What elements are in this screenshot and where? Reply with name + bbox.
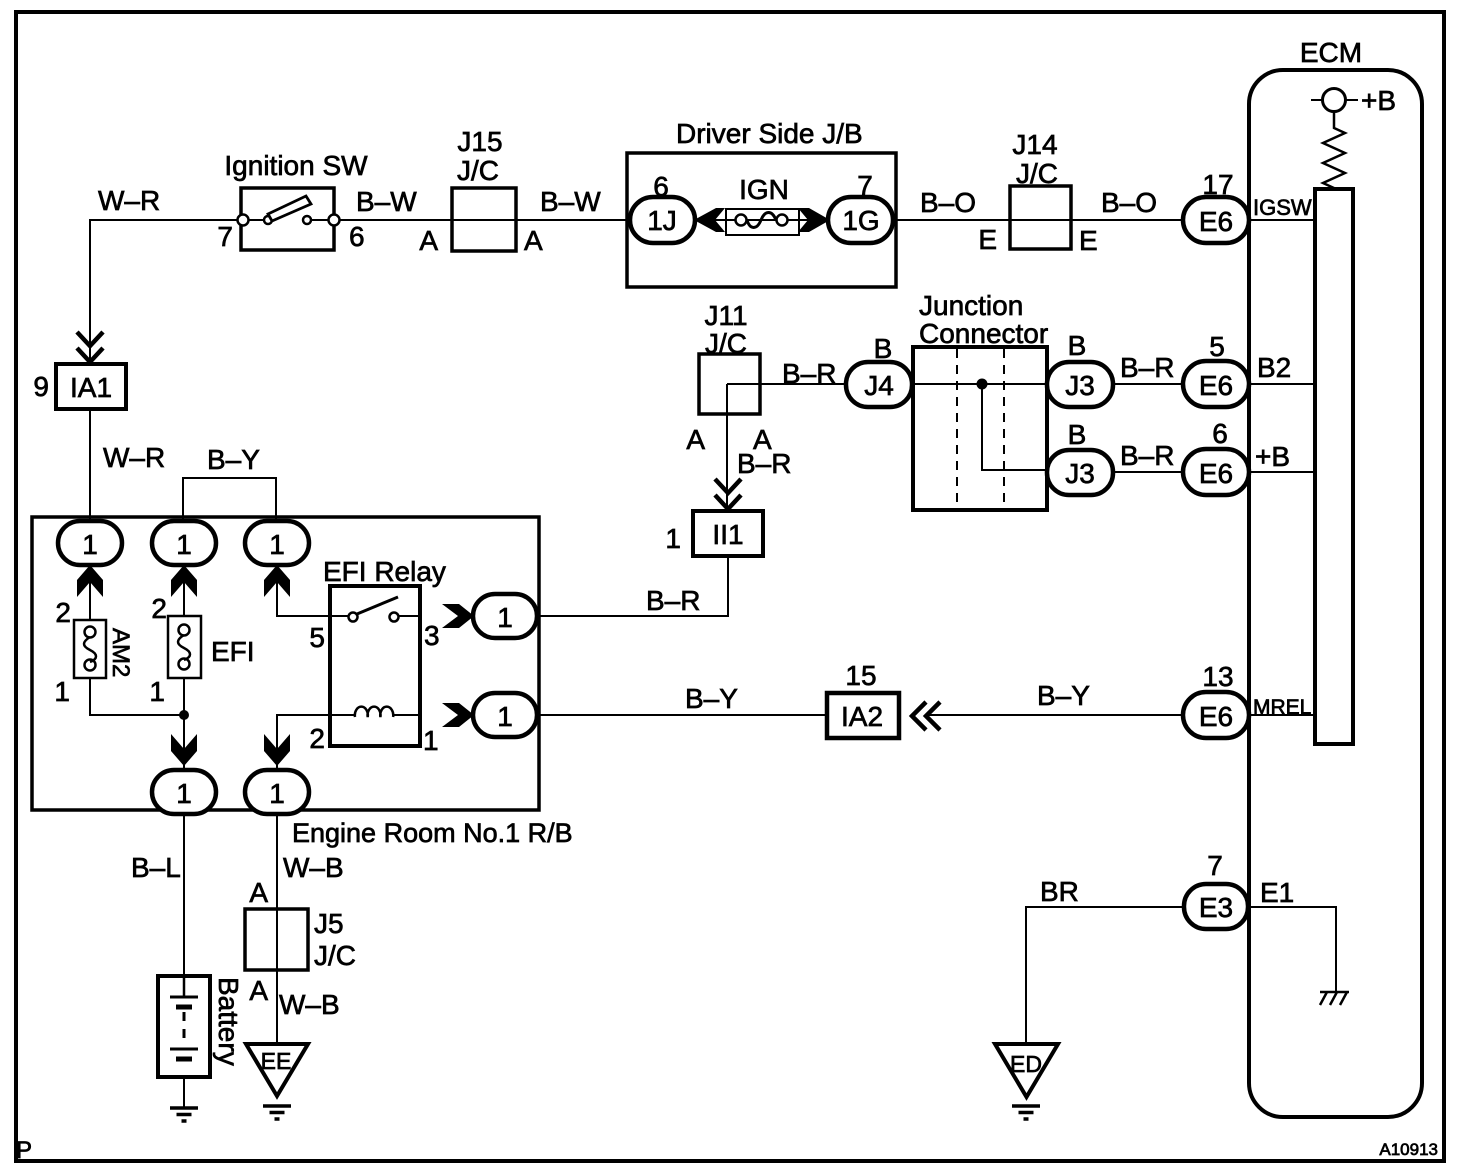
svg-text:BR: BR <box>1040 876 1079 907</box>
svg-text:1: 1 <box>269 529 285 560</box>
svg-text:15: 15 <box>845 660 876 691</box>
svg-text:7: 7 <box>857 170 873 201</box>
svg-text:1: 1 <box>54 676 70 707</box>
svg-text:1: 1 <box>497 602 513 633</box>
svg-text:Driver Side J/B: Driver Side J/B <box>676 118 863 149</box>
wire inside junction connector <box>982 384 1047 470</box>
svg-text:B–Y: B–Y <box>685 683 738 714</box>
svg-text:E: E <box>978 224 997 255</box>
wire EFI fuse column <box>183 560 185 616</box>
svg-text:J11: J11 <box>704 300 747 331</box>
svg-text:IGSW: IGSW <box>1253 195 1312 220</box>
svg-text:B–R: B–R <box>646 585 700 616</box>
svg-text:P: P <box>16 1137 32 1164</box>
svg-text:B–O: B–O <box>1101 187 1157 218</box>
svg-text:B: B <box>1068 330 1087 361</box>
connector E3 pin 7 (E1) <box>1184 850 1248 929</box>
svg-text:3: 3 <box>424 620 440 651</box>
svg-text:IA1: IA1 <box>70 372 112 403</box>
arrow down (W-B column) <box>264 734 290 766</box>
fuse EFI pins 2/1 <box>149 593 254 707</box>
wire +B E6 to ECM block <box>1247 471 1316 473</box>
ground (battery) <box>170 1108 198 1121</box>
connector 1J pin 6 <box>630 171 695 243</box>
svg-text:1G: 1G <box>842 205 879 236</box>
wire W-R from ignition SW to IA1 <box>90 220 243 364</box>
wire E1 to chassis ground <box>1247 907 1336 992</box>
svg-text:6: 6 <box>349 221 365 252</box>
svg-text:W–R: W–R <box>103 442 165 473</box>
svg-text:B–W: B–W <box>540 186 601 217</box>
connector 1 (relay pin 1) <box>473 693 537 737</box>
svg-text:IA2: IA2 <box>841 701 883 732</box>
connector 1 (bottom, W-B) <box>245 770 309 814</box>
arrow into II1 (double chevron) <box>715 479 741 509</box>
svg-text:J3: J3 <box>1065 458 1095 489</box>
svg-text:2: 2 <box>309 723 325 754</box>
wire relay pin2 to W-B column <box>277 715 332 772</box>
wire relay pin5 input <box>277 560 332 616</box>
svg-text:EFI: EFI <box>211 636 255 667</box>
svg-text:B2: B2 <box>1257 352 1291 383</box>
ECM internal block <box>1315 189 1353 744</box>
svg-text:J4: J4 <box>864 370 894 401</box>
arrow into 1J <box>694 208 725 232</box>
svg-text:B–R: B–R <box>737 448 791 479</box>
svg-text:B–R: B–R <box>782 358 836 389</box>
svg-text:Engine Room No.1 R/B: Engine Room No.1 R/B <box>292 818 573 848</box>
svg-text:B: B <box>874 333 893 364</box>
connector J4 pin B <box>846 333 912 407</box>
svg-text:W–B: W–B <box>283 852 344 883</box>
svg-text:W–B: W–B <box>279 989 340 1020</box>
connector E6 pin 13 (MREL) <box>1183 661 1249 738</box>
svg-text:E6: E6 <box>1199 458 1233 489</box>
svg-text:B: B <box>1068 419 1087 450</box>
svg-text:1: 1 <box>497 701 513 732</box>
Engine Room No.1 R/B box <box>32 517 573 848</box>
junction J11 J/C <box>686 300 772 455</box>
svg-text:J5: J5 <box>314 908 344 939</box>
connector 1G pin 7 <box>828 170 893 243</box>
svg-text:1J: 1J <box>647 205 677 236</box>
svg-text:B–Y: B–Y <box>1037 680 1090 711</box>
ground ED triangle <box>995 1044 1058 1097</box>
block IA1 pin 9 <box>33 364 126 409</box>
junction J14 J/C <box>978 129 1097 256</box>
ECM +B terminal <box>1311 85 1396 116</box>
wire AM2 fuse to junction dot <box>90 676 184 715</box>
svg-text:ECM: ECM <box>1300 37 1362 68</box>
svg-text:5: 5 <box>1209 331 1225 362</box>
junction J15 J/C <box>419 126 543 256</box>
connector E6 pin 6 (+B) <box>1183 418 1249 495</box>
fuse AM2 pins 2/1 <box>54 597 134 707</box>
wire B-Y loop over fuses <box>183 478 276 526</box>
svg-text:II1: II1 <box>712 519 743 550</box>
arrow right (relay pin 1 output) <box>442 703 474 727</box>
arrow right (relay pin 3 output) <box>442 604 474 628</box>
svg-text:Ignition SW: Ignition SW <box>224 150 368 181</box>
svg-text:B–R: B–R <box>1120 440 1174 471</box>
svg-text:J14: J14 <box>1012 129 1057 160</box>
wire battery to ground <box>183 1058 185 1108</box>
arrow into 1G <box>798 208 830 232</box>
wire B-W ignition SW to 1J <box>334 219 632 221</box>
svg-text:+B: +B <box>1255 441 1290 472</box>
wire B-R J11 down to II1 <box>726 384 728 513</box>
svg-text:B–W: B–W <box>356 186 417 217</box>
connector 1 (top of AM2 fuse) <box>58 521 122 565</box>
fuse IGN <box>711 174 813 235</box>
svg-text:EE: EE <box>261 1048 292 1074</box>
ground EE triangle <box>246 1044 308 1096</box>
svg-text:EFI Relay: EFI Relay <box>323 556 446 587</box>
svg-text:2: 2 <box>55 597 71 628</box>
junction connector box (J3/J4) <box>913 290 1048 510</box>
arrow up (AM2 column) <box>77 565 103 597</box>
arrow into IA1 (double chevron) <box>77 332 103 362</box>
svg-text:A10913: A10913 <box>1379 1140 1438 1159</box>
wire B-R J3 to E6 (B2 row) <box>1110 383 1185 385</box>
wire MREL E6 to ECM block <box>1247 714 1316 716</box>
svg-text:Junction: Junction <box>919 290 1023 321</box>
svg-text:Battery: Battery <box>213 977 244 1066</box>
wire BR E3 to ED ground <box>1026 907 1185 1046</box>
svg-text:ED: ED <box>1010 1051 1042 1077</box>
battery <box>158 976 244 1077</box>
svg-text:+B: +B <box>1361 85 1396 116</box>
connector E6 pin 5 (B2) <box>1183 331 1249 407</box>
svg-text:B–L: B–L <box>131 852 181 883</box>
wire B-R J3 to E6 (+B row) <box>1110 471 1185 473</box>
arrow up (EFI column) <box>171 565 197 597</box>
junction dot (junction connector) <box>977 379 988 390</box>
wire IGSW E6 to ECM block <box>1247 219 1316 221</box>
wire B-Y IA2 to E6 (MREL) <box>927 714 1185 716</box>
wire W-B to EE ground <box>276 812 278 1046</box>
svg-text:1: 1 <box>665 523 681 554</box>
wire B-O 1G to E6 <box>893 219 1185 221</box>
svg-text:J15: J15 <box>457 126 502 157</box>
svg-text:J/C: J/C <box>314 940 356 971</box>
junction dot (EFI column) <box>179 710 189 720</box>
ECM body <box>1249 37 1422 1117</box>
arrow into IA2 (double chevron) <box>912 702 940 730</box>
wire B-L to battery <box>183 812 185 978</box>
svg-text:E6: E6 <box>1199 701 1233 732</box>
svg-text:AM2: AM2 <box>107 628 134 677</box>
svg-text:J/C: J/C <box>457 155 499 186</box>
resistor (ECM internal pull-up) <box>1323 112 1345 190</box>
wire IA1 down into R/B (W-R) <box>89 408 91 526</box>
connector E6 pin 17 (IGSW) <box>1183 169 1249 243</box>
Driver Side J/B box <box>627 118 896 287</box>
block IA2 pin 15 <box>827 660 899 738</box>
svg-text:7: 7 <box>1207 850 1223 881</box>
svg-text:17: 17 <box>1202 169 1233 200</box>
svg-text:9: 9 <box>33 371 49 402</box>
EFI relay <box>309 556 446 756</box>
svg-text:1: 1 <box>269 778 285 809</box>
svg-text:1: 1 <box>176 778 192 809</box>
connector 1 (top of relay input) <box>245 521 309 565</box>
svg-text:13: 13 <box>1202 661 1233 692</box>
svg-text:Connector: Connector <box>919 318 1048 349</box>
connector J3 pin B (+B row) <box>1047 419 1113 495</box>
svg-text:A: A <box>249 877 268 908</box>
svg-text:J3: J3 <box>1065 370 1095 401</box>
svg-text:E6: E6 <box>1199 370 1233 401</box>
svg-text:E: E <box>1079 225 1098 256</box>
svg-text:J/C: J/C <box>1016 158 1058 189</box>
svg-text:A: A <box>249 975 268 1006</box>
svg-text:J/C: J/C <box>705 328 747 359</box>
svg-text:A: A <box>686 424 705 455</box>
wire B-R J11 to J4/junction connector <box>727 383 1185 385</box>
svg-text:7: 7 <box>217 221 233 252</box>
svg-text:E1: E1 <box>1260 877 1294 908</box>
junction J5 J/C <box>245 877 356 1006</box>
ignition switch SW <box>217 150 368 252</box>
wire AM2 fuse column <box>89 560 91 620</box>
connector J3 pin B (B2 row) <box>1047 330 1113 407</box>
svg-text:1: 1 <box>423 725 439 756</box>
connector 1 (relay pin 3) <box>473 594 537 638</box>
wire EFI fuse to bottom connector <box>183 676 185 774</box>
wire B2 E6 to ECM block <box>1247 383 1316 385</box>
svg-text:B–Y: B–Y <box>207 444 260 475</box>
block II1 pin 1 <box>665 511 763 556</box>
connector 1 (top of EFI fuse) <box>152 521 216 565</box>
svg-text:6: 6 <box>653 171 669 202</box>
svg-text:1: 1 <box>82 529 98 560</box>
arrow up (relay input column) <box>264 565 290 597</box>
svg-text:5: 5 <box>309 622 325 653</box>
wire B-R relay output to II1 <box>537 556 728 616</box>
svg-text:E6: E6 <box>1199 206 1233 237</box>
svg-text:E3: E3 <box>1199 892 1233 923</box>
chassis ground (E1) <box>1320 992 1349 1005</box>
svg-text:1: 1 <box>149 676 165 707</box>
svg-text:B–O: B–O <box>920 187 976 218</box>
wire B-Y relay output to IA2 <box>537 714 827 716</box>
ground symbol (ED) <box>1012 1106 1040 1119</box>
svg-text:2: 2 <box>151 593 167 624</box>
svg-text:A: A <box>524 225 543 256</box>
svg-text:1: 1 <box>176 529 192 560</box>
connector 1 (bottom, B-L) <box>152 770 216 814</box>
svg-text:MREL: MREL <box>1253 696 1311 719</box>
ground symbol (EE) <box>263 1106 291 1119</box>
svg-text:B–R: B–R <box>1120 352 1174 383</box>
svg-text:6: 6 <box>1212 418 1228 449</box>
svg-text:W–R: W–R <box>98 185 160 216</box>
svg-text:IGN: IGN <box>739 174 789 205</box>
svg-text:A: A <box>419 225 438 256</box>
arrow down (EFI to bottom connector) <box>171 734 197 766</box>
